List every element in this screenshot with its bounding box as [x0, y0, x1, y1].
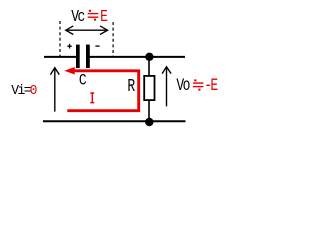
svg-text:-E: -E	[204, 75, 218, 96]
wire: top rail left segment	[44, 56, 77, 58]
svg-text:C: C	[79, 72, 87, 89]
wire: resistor bottom lead	[148, 100, 150, 122]
label Vo	[176, 75, 190, 95]
svg-text:E: E	[100, 7, 108, 27]
polarity mark -	[95, 45, 99, 47]
wire: top rail right segment	[90, 56, 186, 58]
label Vc	[71, 7, 84, 27]
label 0 (red)	[30, 83, 38, 98]
label C	[79, 72, 87, 89]
label Vi=	[11, 83, 31, 98]
node: bottom junction	[145, 118, 153, 126]
label -E (red) of Vo	[204, 75, 218, 96]
dashed measurement line left	[59, 21, 61, 57]
wire: bottom rail	[43, 120, 186, 122]
capacitor C right plate	[86, 45, 90, 68]
arrow Vi	[50, 68, 59, 112]
svg-text:Vo: Vo	[176, 75, 190, 95]
capacitor C left plate	[76, 45, 80, 68]
wire: resistor top lead	[148, 57, 150, 76]
svg-text:Vi=: Vi=	[11, 83, 31, 98]
label I (red)	[90, 93, 94, 103]
label E (red) of Vc	[100, 7, 108, 27]
arrow Vo	[162, 67, 171, 107]
resistor R	[144, 76, 154, 100]
svg-text:R: R	[127, 76, 135, 97]
node: top junction	[145, 53, 153, 61]
svg-text:0: 0	[30, 83, 38, 98]
polarity mark +	[67, 44, 72, 49]
dimension arrow for Vc	[66, 26, 108, 35]
current loop I (red path)	[64, 67, 138, 111]
label ≒ (red) of Vc	[88, 10, 99, 21]
label ≒ (red) of Vo	[193, 79, 204, 90]
label R	[127, 76, 135, 97]
svg-text:Vc: Vc	[71, 7, 84, 27]
dashed measurement line right	[112, 22, 114, 57]
